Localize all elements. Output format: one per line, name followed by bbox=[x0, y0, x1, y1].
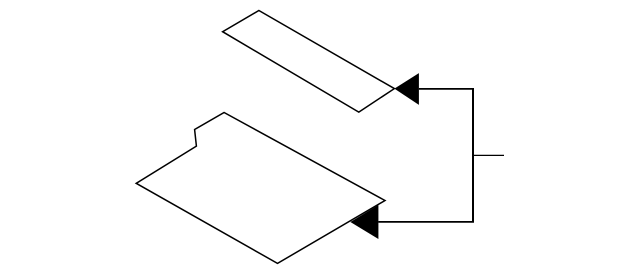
arrowhead into top plate bbox=[394, 73, 419, 105]
wire: vertical segment bbox=[472, 88, 474, 222]
wire: top horizontal segment bbox=[419, 88, 473, 90]
bottom plate (isometric parallelogram with notched upper-left edge) bbox=[136, 113, 385, 264]
arrowhead into bottom plate bbox=[350, 205, 378, 239]
wire: bottom horizontal segment bbox=[378, 221, 474, 223]
wire: middle stub bbox=[473, 154, 504, 156]
top plate (thin isometric parallelogram) bbox=[223, 11, 395, 113]
